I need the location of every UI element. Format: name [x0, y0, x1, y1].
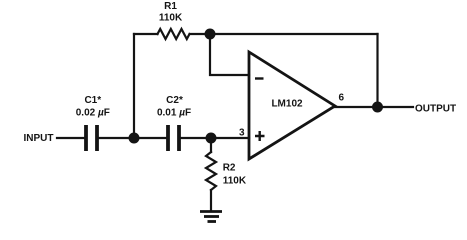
svg-text:INPUT: INPUT [24, 133, 54, 144]
wire input segment C from C2 to op-amp [181, 137, 249, 139]
svg-text:110K: 110K [159, 13, 183, 24]
wire top horizontal right of R1 [190, 33, 378, 35]
resistor R1 [158, 29, 190, 39]
op-amp minus sign [255, 77, 264, 79]
wire R2 bottom lead [210, 190, 212, 211]
node junction R1 feedback [205, 29, 216, 40]
svg-text:OUTPUT: OUTPUT [415, 103, 456, 114]
svg-text:LM102: LM102 [271, 99, 303, 110]
node junction C1-C2 [129, 133, 140, 144]
svg-text:C1*: C1* [84, 95, 101, 106]
svg-text:0.01 µF: 0.01 µF [157, 107, 191, 118]
wire input segment B between C1 and C2 [99, 137, 166, 139]
resistor R2 [206, 152, 216, 190]
capacitor C2 [168, 125, 179, 151]
op-amp plus sign [255, 131, 265, 141]
wire R2 top lead [210, 138, 212, 152]
svg-text:6: 6 [339, 93, 345, 104]
svg-text:110K: 110K [223, 175, 247, 186]
node junction output [372, 102, 383, 113]
wire input segment A [57, 137, 84, 139]
op-amp U1 LM102 [249, 52, 335, 159]
svg-text:3: 3 [239, 127, 245, 138]
wire feedback right vertical leg [376, 34, 378, 107]
wire top horizontal left of R1 [134, 33, 158, 35]
wire output segment [335, 106, 413, 108]
svg-text:R2: R2 [223, 163, 236, 174]
svg-text:R1: R1 [164, 1, 177, 12]
ground [200, 212, 222, 222]
wire inverting input from node to op-amp [210, 34, 249, 75]
wire feedback left vertical leg [133, 34, 135, 138]
capacitor C1 [86, 125, 97, 151]
svg-text:0.02 µF: 0.02 µF [76, 107, 110, 118]
node junction C2-R2 [206, 133, 217, 144]
svg-text:C2*: C2* [166, 95, 183, 106]
